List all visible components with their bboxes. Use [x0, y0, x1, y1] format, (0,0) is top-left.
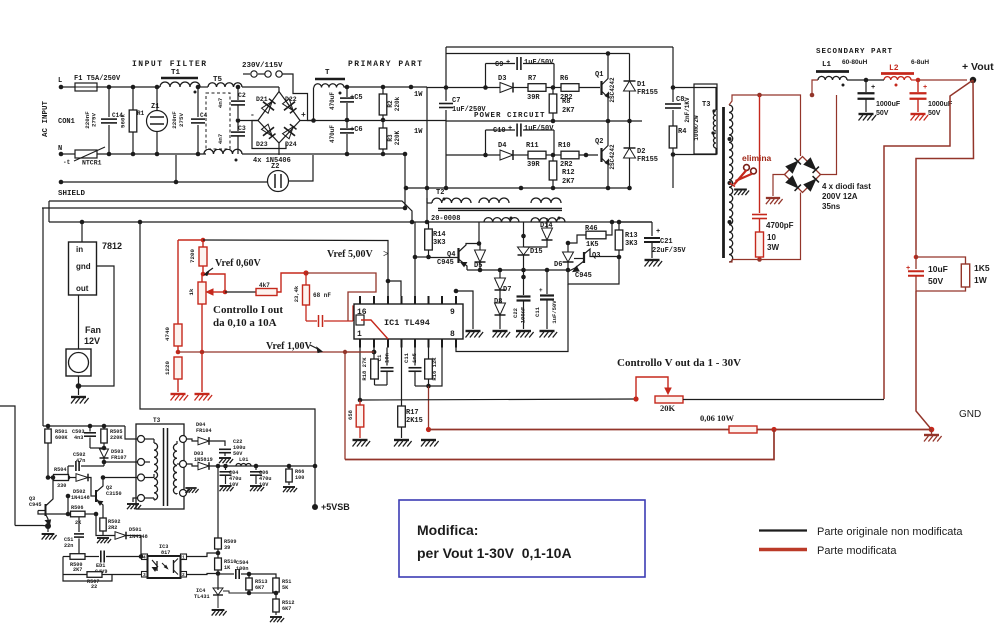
svg-text:9: 9	[450, 308, 455, 317]
svg-text:CON1: CON1	[58, 118, 75, 126]
svg-text:T2: T2	[436, 189, 444, 197]
svg-text:4k7: 4k7	[259, 282, 270, 289]
svg-text:50V: 50V	[928, 110, 941, 117]
svg-text:1N4148: 1N4148	[71, 495, 90, 501]
wire red feedback riser	[344, 352, 346, 460]
svg-text:R11: R11	[526, 142, 539, 150]
svg-text:FR155: FR155	[637, 89, 658, 97]
svg-text:+5VSB: +5VSB	[321, 502, 350, 512]
svg-text:T: T	[325, 69, 330, 77]
svg-text:Vref 5,00V: Vref 5,00V	[327, 249, 374, 260]
svg-text:L: L	[58, 77, 62, 85]
svg-text:1k: 1k	[188, 288, 195, 295]
capacitor C3 4n7	[231, 121, 246, 154]
svg-text:C10: C10	[493, 127, 506, 135]
svg-text:560k: 560k	[120, 114, 127, 128]
resistor 0,06 10W red	[429, 413, 932, 433]
svg-text:T1: T1	[171, 69, 181, 77]
thermistor NTCR1	[63, 147, 105, 167]
resistor 1K5 1W	[916, 257, 990, 291]
label INPUT FILTER	[132, 60, 208, 69]
wire lower red return	[345, 430, 774, 460]
svg-text:Z1: Z1	[151, 103, 159, 111]
svg-text:2R2: 2R2	[108, 525, 117, 531]
svg-text:PRIMARY PART: PRIMARY PART	[348, 60, 424, 69]
svg-text:D7: D7	[503, 286, 511, 294]
wire secondary bottom	[729, 193, 801, 263]
svg-text:470uF: 470uF	[329, 92, 336, 110]
svg-text:T3: T3	[153, 417, 161, 424]
capacitor C10 1uF/50V	[486, 124, 555, 156]
svg-text:220nF: 220nF	[171, 111, 178, 129]
wire Q4 collector	[477, 241, 482, 246]
wire secondary top	[729, 95, 801, 156]
wire rail 12V y222	[49, 221, 652, 223]
wire red to pin16 loop	[306, 273, 376, 321]
svg-text:39: 39	[224, 545, 230, 551]
wire N rail	[61, 153, 75, 155]
wire mid rail	[238, 120, 258, 122]
svg-text:4700pF: 4700pF	[766, 221, 794, 230]
svg-text:470uF: 470uF	[329, 125, 336, 143]
svg-text:C4: C4	[200, 112, 208, 119]
wire L rail	[61, 86, 75, 88]
svg-text:C7: C7	[452, 97, 460, 105]
diode D03 1N5819	[187, 451, 316, 470]
svg-text:2nF/1KV: 2nF/1KV	[684, 97, 691, 123]
svg-text:1uF/50V: 1uF/50V	[524, 59, 554, 67]
svg-text:7812: 7812	[102, 241, 122, 251]
svg-text:C945: C945	[437, 259, 454, 267]
capacitor C7 1uF/250V	[439, 97, 486, 114]
svg-text:Modifica:: Modifica:	[417, 522, 478, 538]
svg-text:N: N	[58, 145, 62, 153]
diode D1 FR155	[624, 54, 659, 122]
wire Vref5 line	[203, 240, 388, 281]
svg-text:+ Vout: + Vout	[962, 61, 994, 73]
svg-text:C945: C945	[29, 502, 41, 508]
svg-text:L2: L2	[889, 64, 899, 73]
svg-text:D5: D5	[474, 262, 482, 270]
optocoupler IC3 817	[142, 544, 187, 578]
svg-text:16: 16	[357, 308, 367, 317]
label Vref 1,00V	[266, 341, 322, 353]
diode D2 FR155	[624, 121, 659, 188]
svg-text:12V: 12V	[84, 336, 100, 346]
svg-text:D3: D3	[498, 75, 506, 83]
svg-text:2K7: 2K7	[73, 567, 82, 573]
svg-text:+: +	[508, 125, 512, 133]
svg-text:7200: 7200	[189, 249, 196, 263]
svg-text:1N4148: 1N4148	[129, 534, 148, 540]
diode D501 1N4148	[115, 527, 148, 557]
svg-text:4n3: 4n3	[74, 435, 83, 441]
resistor R4 100R/2W	[669, 115, 700, 148]
svg-text:220K: 220K	[394, 130, 401, 145]
diode D503 FR107	[100, 449, 127, 466]
diode D6	[554, 243, 574, 270]
svg-text:D4: D4	[498, 142, 506, 150]
svg-text:50V: 50V	[928, 276, 943, 286]
svg-text:GND: GND	[959, 409, 981, 420]
svg-text:4: 4	[143, 555, 146, 561]
svg-text:5K: 5K	[282, 585, 289, 591]
svg-text:39R: 39R	[527, 161, 540, 169]
svg-text:Q3: Q3	[592, 252, 600, 260]
svg-text:SECONDARY PART: SECONDARY PART	[816, 48, 893, 56]
node +5VSB	[312, 464, 350, 512]
svg-text:2K7: 2K7	[562, 178, 575, 186]
svg-text:out: out	[76, 284, 89, 293]
wire pin8 down	[456, 284, 568, 352]
svg-text:22uF/35V: 22uF/35V	[652, 247, 686, 255]
resistor R66 100	[283, 464, 304, 493]
diode D502 1N4148	[69, 474, 97, 501]
svg-text:50V: 50V	[876, 110, 889, 117]
svg-text:2SC4242: 2SC4242	[609, 77, 616, 103]
svg-text:SHIELD: SHIELD	[58, 190, 86, 198]
svg-text:1K5: 1K5	[974, 263, 990, 273]
svg-text:R17: R17	[406, 409, 419, 417]
fan 12V	[66, 325, 101, 376]
capacitor C22 100nF	[512, 270, 534, 338]
svg-text:1uF/50V: 1uF/50V	[551, 300, 558, 324]
node N terminal	[58, 145, 63, 156]
svg-text:D8: D8	[494, 298, 502, 306]
wire T1 to T5 top	[200, 86, 208, 88]
resistor R2 220k 1W	[379, 87, 423, 122]
capacitor C8 2nF/1KV	[665, 96, 691, 123]
wire power box left edge with C7	[445, 47, 447, 101]
diode D14	[524, 218, 553, 247]
svg-text:3: 3	[143, 572, 146, 578]
capacitor C11 1n5	[403, 348, 429, 387]
svg-text:1K: 1K	[224, 565, 231, 571]
resistor R513 6K7	[246, 574, 268, 595]
capacitor 1000uF 50V first	[858, 78, 901, 121]
wire emitter rail	[467, 269, 568, 271]
wire HV rail left drop B	[42, 208, 44, 426]
svg-text:330: 330	[57, 483, 66, 489]
legend original line	[759, 526, 963, 538]
svg-text:1000uF: 1000uF	[928, 101, 953, 108]
wire Q2 collector to T3	[103, 477, 137, 479]
svg-text:R1: R1	[137, 110, 145, 117]
legend modified line	[759, 545, 897, 557]
svg-text:658: 658	[347, 409, 354, 420]
label Vref 5,00V	[327, 249, 389, 260]
wire pin6 node down	[428, 386, 430, 430]
diode D4	[446, 142, 513, 160]
svg-text:68 nF: 68 nF	[313, 292, 331, 299]
label Controllo V out	[617, 357, 741, 369]
svg-text:100: 100	[295, 475, 304, 481]
wire aux 5VSB link	[140, 222, 315, 466]
wire Vref1 line	[178, 351, 374, 353]
svg-text:D24: D24	[285, 141, 297, 148]
svg-text:R10: R10	[558, 142, 571, 150]
varistor Z1	[147, 87, 168, 154]
wire Vsense branch	[884, 80, 973, 399]
wire pin1 down	[359, 348, 361, 401]
svg-text:TL431: TL431	[194, 594, 210, 600]
resistor R17 2K15	[394, 348, 423, 447]
capacitor C504 100n	[218, 560, 251, 579]
capacitor 1000uF 50V second red	[910, 78, 953, 121]
diode D04 FR104	[187, 422, 226, 446]
wire Vref top red	[178, 239, 203, 241]
resistor R10 2R2	[558, 142, 598, 169]
wire T2 primary left	[427, 202, 432, 204]
svg-text:275V: 275V	[91, 113, 98, 127]
svg-text:2: 2	[182, 572, 185, 578]
svg-text:100nF: 100nF	[520, 307, 527, 324]
wire pin9 ground	[454, 289, 459, 294]
svg-text:gnd: gnd	[76, 262, 91, 271]
svg-text:1n5: 1n5	[411, 352, 418, 363]
capacitor 4700pF	[752, 95, 794, 232]
wire snubber vertical	[672, 47, 674, 102]
resistor R12 2K7	[546, 153, 575, 191]
wire power top rail A	[446, 46, 673, 48]
svg-text:+: +	[871, 84, 875, 92]
svg-text:Q2: Q2	[595, 138, 603, 146]
transistor Q4 C945	[429, 244, 480, 271]
svg-text:1W: 1W	[414, 128, 423, 136]
resistor R1 560k	[120, 87, 145, 154]
wire power top rail B	[446, 53, 630, 55]
resistor R7 39R	[513, 75, 546, 102]
wire red left branch	[177, 240, 179, 324]
svg-text:R6: R6	[560, 75, 568, 83]
svg-text:+: +	[301, 111, 306, 120]
resistor R11 39R	[513, 142, 546, 169]
svg-text:da 0,10 a 10A: da 0,10 a 10A	[213, 317, 277, 329]
svg-text:6-8uH: 6-8uH	[911, 59, 929, 66]
resistor R14 3K3	[425, 222, 446, 259]
svg-text:T3: T3	[702, 101, 710, 109]
svg-text:10uF: 10uF	[928, 264, 948, 274]
svg-text:D23: D23	[256, 141, 268, 148]
svg-text:R16 12K: R16 12K	[431, 357, 438, 381]
svg-text:4n7: 4n7	[217, 133, 224, 144]
resistor R512 6K7	[270, 591, 294, 623]
transistor Q2 2SC4242	[595, 121, 616, 188]
wire standby base links	[15, 525, 48, 528]
op-amp IC1 TL494	[354, 296, 463, 348]
svg-text:D6: D6	[554, 261, 562, 269]
node GND	[924, 409, 981, 442]
svg-text:0,06 10W: 0,06 10W	[700, 413, 735, 423]
diodes D7 D8	[493, 270, 512, 338]
transistor Q2 C3150	[96, 475, 122, 513]
potentiometer 20K red	[636, 377, 884, 413]
ground bridge left	[773, 175, 785, 197]
svg-text:1: 1	[182, 555, 185, 561]
inductor T choke	[314, 69, 345, 95]
wire shield rail	[61, 181, 268, 183]
svg-text:D501: D501	[129, 527, 141, 533]
wire opto connections	[187, 553, 219, 557]
resistor R501 600K	[45, 426, 69, 478]
svg-text:220k: 220k	[394, 96, 401, 111]
svg-text:C11: C11	[403, 352, 410, 363]
capacitor C1 10n	[375, 348, 394, 386]
resistor R507 22	[63, 572, 142, 590]
label AC INPUT	[42, 101, 50, 138]
svg-text:IC1 TL494: IC1 TL494	[384, 318, 430, 328]
wire pot bottom	[201, 304, 203, 392]
diode D15	[518, 222, 543, 270]
resistor 7200 red	[189, 240, 207, 276]
wire pin2 red stub	[345, 351, 374, 353]
potentiometer 1k red	[188, 274, 227, 304]
capacitor C6 470uF	[329, 120, 363, 156]
label 4 x diodi fast	[822, 182, 871, 211]
resistor R46 1K5	[566, 222, 612, 249]
svg-text:C1: C1	[376, 354, 383, 361]
svg-text:C21: C21	[660, 238, 673, 246]
wire bottom bus	[63, 557, 112, 582]
resistor R6 2R2	[560, 75, 600, 102]
inductor L2 6-8uH red	[866, 59, 929, 87]
svg-text:Fan: Fan	[85, 325, 101, 335]
diode bridge 4x diodi fast	[785, 157, 821, 193]
svg-text:Controllo I out: Controllo I out	[213, 304, 283, 316]
svg-text:1W: 1W	[974, 275, 988, 285]
wire power bottom rail	[406, 187, 630, 189]
resistor 1220 red	[164, 357, 188, 401]
svg-text:4 x diodi fast: 4 x diodi fast	[822, 182, 871, 191]
wire 7812 out to fan	[78, 295, 80, 349]
svg-text:L01: L01	[239, 457, 248, 463]
svg-text:+: +	[656, 228, 660, 236]
svg-text:R18 27K: R18 27K	[361, 357, 368, 381]
svg-text:1000uF: 1000uF	[876, 101, 901, 108]
resistor 10 3W	[756, 232, 780, 260]
svg-text:60-80uH: 60-80uH	[842, 59, 868, 66]
diode D3	[427, 75, 513, 93]
svg-text:per Vout 1-30V 0,1-10A: per Vout 1-30V 0,1-10A	[417, 545, 572, 561]
svg-text:+: +	[506, 59, 510, 67]
svg-text:-t: -t	[63, 159, 71, 166]
svg-text:1: 1	[357, 330, 362, 339]
resistor 4740 red	[164, 324, 182, 354]
svg-text:22: 22	[91, 584, 97, 590]
wire R13 bottom loop	[568, 257, 619, 284]
svg-text:10n: 10n	[384, 353, 391, 363]
svg-text:2R2: 2R2	[560, 161, 573, 169]
junction dots input rails	[107, 85, 112, 90]
wire bridge to L1	[821, 95, 837, 175]
capacitor C14 220nF/275V	[84, 87, 123, 154]
note Modifica box	[399, 500, 645, 577]
resistor R500 2K7	[63, 554, 85, 573]
label Vref 0,60V	[205, 258, 262, 276]
label CON1	[58, 118, 75, 126]
svg-text:2K15: 2K15	[406, 417, 423, 425]
svg-text:+C5: +C5	[350, 94, 363, 102]
svg-text:20K: 20K	[660, 403, 676, 413]
svg-text:Parte originale non modificata: Parte originale non modificata	[817, 526, 963, 538]
svg-text:47n: 47n	[76, 458, 85, 464]
svg-text:3W: 3W	[767, 243, 779, 252]
resistor 23,4k red	[293, 270, 310, 321]
svg-text:3K3: 3K3	[433, 239, 446, 247]
svg-text:275V: 275V	[178, 113, 185, 127]
svg-text:600K: 600K	[55, 435, 68, 441]
wire HV rail left drop A	[48, 201, 50, 222]
capacitor C2 4n7	[231, 87, 246, 118]
wire 7812 gnd	[79, 266, 115, 386]
choke T5 dashed box	[206, 76, 242, 149]
svg-text:Vref 1,00V: Vref 1,00V	[266, 341, 313, 352]
svg-text:200V 12A: 200V 12A	[822, 192, 858, 201]
shunt regulator IC4 TL431	[194, 588, 276, 616]
wire standby node A	[46, 475, 51, 480]
svg-text:1K5: 1K5	[586, 241, 599, 249]
svg-text:AC INPUT: AC INPUT	[42, 101, 50, 138]
svg-text:in: in	[76, 245, 83, 254]
svg-text:R12: R12	[562, 169, 575, 177]
regulator 7812	[69, 241, 123, 295]
svg-text:1W: 1W	[414, 91, 423, 99]
svg-text:D22: D22	[285, 96, 297, 103]
svg-text:INPUT FILTER: INPUT FILTER	[132, 60, 208, 69]
svg-text:R14: R14	[433, 231, 446, 239]
capacitor Z2	[268, 155, 314, 192]
transformer T3 standby	[127, 417, 199, 509]
label POWER CIRCUIT	[474, 112, 546, 120]
wire 7812 in	[81, 222, 83, 242]
wire fan bottom ground	[78, 376, 80, 395]
svg-text:Z2: Z2	[271, 163, 279, 171]
capacitor C502 47n	[68, 452, 137, 471]
wire to D501	[96, 514, 115, 536]
svg-text:Parte modificata: Parte modificata	[817, 545, 897, 557]
svg-text:C3: C3	[238, 125, 246, 132]
svg-text:6K7: 6K7	[255, 585, 264, 591]
label Controllo I out	[213, 304, 283, 329]
svg-text:1uF/50V: 1uF/50V	[524, 125, 554, 133]
node + Vout	[918, 61, 994, 83]
svg-text:2SC4242: 2SC4242	[609, 144, 616, 170]
label PRIMARY PART	[348, 60, 424, 69]
svg-text:C2: C2	[238, 92, 246, 99]
svg-text:3K3: 3K3	[625, 240, 638, 248]
svg-text:100n: 100n	[236, 566, 248, 572]
svg-text:1220: 1220	[164, 361, 171, 375]
svg-text:R4: R4	[678, 128, 686, 136]
svg-text:C945: C945	[575, 272, 592, 280]
svg-text:Q4: Q4	[447, 251, 455, 259]
resistor R8 2K7	[546, 85, 575, 123]
capacitor C51 22n	[64, 518, 84, 557]
svg-text:NTCR1: NTCR1	[82, 160, 102, 167]
svg-text:R13: R13	[625, 232, 638, 240]
svg-text:10V: 10V	[259, 482, 269, 488]
resistor R51 5K	[249, 574, 291, 592]
resistor 658 red	[347, 400, 370, 447]
capacitor C503 4n3	[72, 426, 104, 448]
svg-text:+: +	[906, 265, 910, 273]
svg-text:2K7: 2K7	[562, 107, 575, 115]
transistor Q3 C945	[570, 249, 619, 280]
svg-text:C11: C11	[534, 306, 541, 317]
svg-text:POWER CIRCUIT: POWER CIRCUIT	[474, 112, 546, 120]
wire HV rail lower	[42, 207, 405, 209]
svg-text:+: +	[923, 84, 927, 92]
